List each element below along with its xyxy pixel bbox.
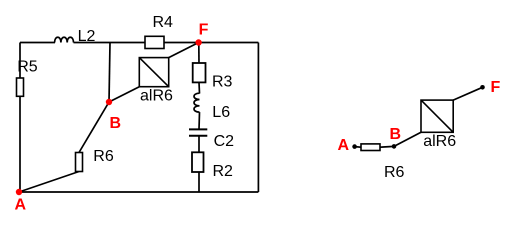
wire: alR6 box to node F (reduced)	[453, 87, 482, 100]
wire: right side	[257, 43, 259, 193]
resistor R6	[76, 148, 114, 171]
svg-text:R5: R5	[17, 59, 38, 76]
resistor R2	[192, 152, 233, 180]
svg-text:R2: R2	[213, 163, 234, 180]
svg-text:R3: R3	[212, 74, 233, 91]
svg-text:B: B	[390, 126, 402, 143]
node A (main)	[15, 189, 27, 214]
node A (reduced circuit)	[338, 137, 357, 154]
inductor L2	[55, 28, 96, 45]
resistor R6 (reduced)	[361, 144, 405, 181]
svg-text:R6: R6	[384, 164, 405, 181]
svg-text:B: B	[110, 115, 122, 132]
wire: L6 to C2	[198, 112, 201, 129]
wire: node A to resistor R6	[19, 172, 79, 193]
node B (reduced)	[390, 126, 402, 149]
node F (reduced)	[480, 79, 500, 96]
wire: R3 to L6	[198, 82, 201, 93]
wire: node F down to R3	[198, 43, 200, 65]
svg-text:alR6: alR6	[423, 133, 456, 150]
capacitor C2	[189, 129, 234, 150]
node B (main)	[106, 99, 121, 132]
wire: alR6 box to node F	[169, 43, 199, 58]
resistor R5	[17, 59, 38, 97]
wire: top side from L2 to right corner through R4	[74, 42, 259, 44]
svg-text:C2: C2	[214, 133, 235, 150]
svg-text:alR6: alR6	[140, 87, 173, 104]
wire: R6 to node B (reduced)	[380, 145, 394, 148]
wire: left side (top corner down to node A)	[19, 43, 21, 193]
wire: node A to R6 (reduced)	[355, 146, 361, 149]
node F (main)	[195, 22, 208, 46]
wire: R2 to bottom wire	[198, 172, 200, 192]
resistor R4	[145, 14, 173, 49]
controlled source alR6 (reduced, box with diagonal)	[421, 100, 456, 150]
wire: node B to alR6 box (reduced)	[394, 132, 421, 146]
svg-text:F: F	[491, 79, 501, 96]
wire: top side left segment (A to L2)	[20, 42, 55, 44]
svg-text:F: F	[199, 22, 209, 39]
wire: resistor R6 to node B	[79, 102, 109, 153]
svg-text:R4: R4	[153, 14, 174, 31]
controlled source alR6 (box with diagonal)	[139, 58, 173, 105]
wire: node B to alR6 box	[109, 87, 139, 102]
svg-text:A: A	[15, 197, 27, 214]
svg-text:R6: R6	[93, 148, 114, 165]
svg-text:A: A	[338, 137, 350, 154]
wire: bottom side (node A to bottom-right corner)	[19, 191, 258, 193]
inductor L6	[194, 93, 230, 121]
resistor R3	[193, 63, 233, 91]
wire: junction branch from top wire down to node B	[109, 43, 110, 103]
svg-text:L6: L6	[212, 104, 230, 121]
wire: C2 to R2	[198, 136, 200, 153]
